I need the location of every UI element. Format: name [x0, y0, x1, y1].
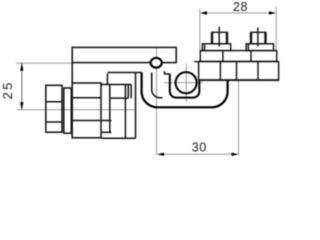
svg-text:30: 30 — [192, 140, 207, 154]
svg-text:28: 28 — [233, 0, 248, 14]
svg-text:25: 25 — [0, 80, 15, 99]
